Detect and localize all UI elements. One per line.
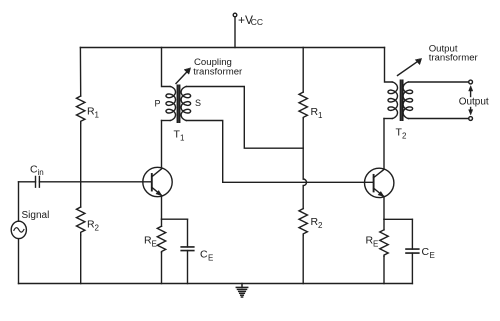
wire CE left leads: [187, 219, 189, 283]
wire RE left leads: [161, 219, 163, 283]
svg-text:E: E: [430, 251, 435, 260]
ground: [236, 284, 247, 298]
svg-text:CC: CC: [251, 17, 263, 27]
node output terminal top: [469, 80, 473, 84]
svg-text:1: 1: [318, 111, 323, 120]
wire T2 primary bottom lead: [384, 118, 392, 120]
resistor R1 left: [77, 96, 85, 123]
wire Q1 base wire from Cin to base: [19, 181, 152, 183]
node +VCC terminal: [233, 13, 237, 17]
capacitor CE left: [181, 247, 194, 251]
transformer T2 core: [401, 81, 403, 121]
capacitor Cin: [36, 177, 40, 188]
wire VCC stem: [234, 17, 236, 48]
svg-text:1: 1: [95, 111, 100, 120]
svg-text:2: 2: [402, 132, 407, 141]
wire T1 primary bottom lead: [162, 120, 171, 122]
svg-text:transformer: transformer: [429, 53, 479, 64]
svg-text:Output: Output: [459, 97, 489, 108]
transistor Q2: [365, 168, 394, 197]
wire T2 secondary bottom lead: [409, 118, 469, 120]
svg-text:C: C: [422, 246, 430, 258]
wire Q2 emitter down: [383, 197, 385, 220]
svg-text:C: C: [200, 249, 208, 261]
node output terminal bottom: [469, 117, 473, 121]
wire output arrow up: [470, 89, 472, 97]
wire T1 primary top lead from rail: [162, 48, 171, 87]
wire top supply rail: [80, 47, 384, 49]
wire bottom ground rail: [19, 283, 413, 285]
wire Q2 collector up to T2: [383, 119, 385, 170]
svg-text:Signal: Signal: [22, 210, 50, 221]
capacitor CE right: [406, 249, 419, 253]
wire T2 primary top lead from rail: [385, 48, 393, 83]
wire Q2 base wire: [223, 181, 374, 183]
resistor R2 right: [299, 209, 307, 236]
wire hop over base wire: [303, 179, 306, 186]
wire Q1 emitter down: [161, 196, 163, 219]
transformer T2 secondary winding: [403, 82, 413, 119]
svg-text:1: 1: [180, 134, 185, 143]
resistor R2 left: [77, 207, 85, 235]
transistor Q1: [143, 167, 172, 196]
source signal generator: [11, 221, 26, 238]
wire Q1 emitter junction horizontal: [162, 218, 188, 220]
svg-text:E: E: [208, 253, 213, 262]
transformer T1 core: [178, 86, 180, 123]
resistor R1 right: [299, 92, 307, 118]
resistor RE right: [380, 230, 388, 256]
wire signal left leg: [18, 182, 20, 284]
svg-text:S: S: [195, 98, 201, 108]
wire T1 secondary top lead to stage2: [186, 87, 303, 149]
wire T1 secondary bottom lead down to base wire: [186, 121, 222, 183]
svg-text:2: 2: [318, 221, 323, 230]
wire RE right leads: [383, 219, 385, 283]
wire left branch vertical (R1-R2 leg): [79, 48, 81, 284]
wire T2 secondary top lead: [409, 81, 469, 83]
wire right branch vertical with hop: [302, 48, 304, 284]
svg-text:transformer: transformer: [193, 66, 243, 77]
wire CE right leads: [411, 219, 413, 283]
annotation output transformer arrow: [398, 61, 419, 76]
transformer T1 secondary winding: [181, 87, 191, 121]
transformer T1 primary winding: [166, 87, 176, 121]
resistor RE left: [157, 226, 165, 252]
transformer T2 primary winding: [388, 82, 398, 119]
svg-text:in: in: [38, 168, 44, 177]
wire Q2 emitter junction horizontal: [384, 218, 412, 220]
wire Q1 collector up to T1: [161, 121, 163, 169]
svg-text:P: P: [155, 99, 161, 109]
wire output arrow down: [470, 108, 472, 112]
svg-text:E: E: [373, 240, 378, 249]
annotation coupling transformer arrow: [176, 71, 188, 83]
svg-text:2: 2: [95, 224, 100, 233]
svg-text:E: E: [152, 240, 157, 249]
